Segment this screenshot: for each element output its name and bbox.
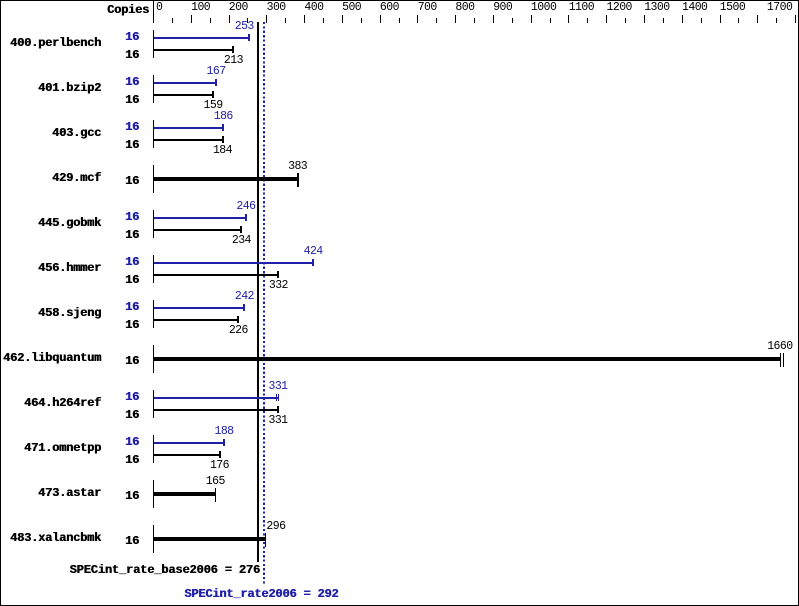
copies label 16 (peak) 403.gcc xyxy=(104,121,139,133)
x-axis minor tick 550 xyxy=(361,18,362,23)
copies label 16 (base) 458.sjeng xyxy=(104,319,139,331)
label 464.h264ref xyxy=(0,397,101,409)
x-axis minor tick 650 xyxy=(399,18,400,23)
x-axis major tick 200 xyxy=(229,15,230,23)
x-axis major tick 500 xyxy=(342,15,343,23)
bar 401.bzip2 base (159) xyxy=(154,94,214,96)
label 429.mcf xyxy=(0,172,101,184)
bar 483.xalancbmk (296) xyxy=(154,537,265,541)
x-axis minor tick 50 xyxy=(172,18,173,23)
value label 331 (peak) 464.h264ref xyxy=(268,381,287,393)
label 462.libquantum xyxy=(0,352,101,364)
x-axis label 1200 xyxy=(607,2,632,14)
x-axis minor tick 350 xyxy=(285,18,286,23)
label 471.omnetpp xyxy=(0,442,101,454)
x-axis label 400 xyxy=(304,2,323,14)
copies label 16 (base) 403.gcc xyxy=(104,139,139,151)
bar end cap 445.gobmk base xyxy=(240,226,242,233)
bar end cap 400.perlbench base xyxy=(232,46,234,53)
label 400.perlbench xyxy=(0,37,101,49)
x-axis minor tick 950 xyxy=(512,18,513,23)
bar end cap 471.omnetpp base xyxy=(219,451,221,458)
label 456.hmmer xyxy=(0,262,101,274)
x-axis label 1400 xyxy=(682,2,707,14)
bar 403.gcc peak (186) xyxy=(154,127,224,129)
x-axis major tick 1600 xyxy=(757,15,758,23)
value label 165 473.astar xyxy=(206,476,225,488)
bar 464.h264ref base (331) xyxy=(154,409,279,411)
x-axis label 100 xyxy=(191,2,210,14)
bar 445.gobmk base (234) xyxy=(154,229,242,231)
value label 234 (base) 445.gobmk xyxy=(232,235,251,247)
bar 471.omnetpp peak (188) xyxy=(154,442,225,444)
x-axis minor tick 150 xyxy=(210,18,211,23)
x-axis label 200 xyxy=(229,2,248,14)
bar end cap 403.gcc base xyxy=(222,136,224,143)
x-axis label 300 xyxy=(267,2,286,14)
copies label 16 (peak) 471.omnetpp xyxy=(104,436,139,448)
bar end cap 458.sjeng peak xyxy=(243,304,245,311)
label 473.astar xyxy=(0,487,101,499)
copies label 16 (peak) 401.bzip2 xyxy=(104,76,139,88)
x-axis label 1500 xyxy=(720,2,745,14)
copies label 16 (peak) 464.h264ref xyxy=(104,391,139,403)
x-axis major tick 300 xyxy=(266,15,267,23)
row axis segment 458.sjeng xyxy=(153,300,154,329)
x-axis minor tick 1350 xyxy=(663,18,664,23)
x-axis label 900 xyxy=(493,2,512,14)
copies label 16 (peak) 445.gobmk xyxy=(104,211,139,223)
x-axis minor tick 1650 xyxy=(776,18,777,23)
bar end cap 458.sjeng base xyxy=(237,316,239,323)
x-axis major tick 1300 xyxy=(644,15,645,23)
y-axis line (value 0) xyxy=(153,1,154,23)
bar end cap 471.omnetpp peak xyxy=(223,439,225,446)
bar 429.mcf (383) xyxy=(154,177,298,181)
x-axis major tick 400 xyxy=(304,15,305,23)
bar end cap 445.gobmk peak xyxy=(245,214,247,221)
bar 400.perlbench peak (253) xyxy=(154,37,250,39)
bar end cap 456.hmmer peak xyxy=(312,259,314,266)
value label 184 (base) 403.gcc xyxy=(213,145,232,157)
bar end cap 464.h264ref peak (double) xyxy=(276,394,277,401)
x-axis label 1000 xyxy=(531,2,556,14)
x-axis major tick 1200 xyxy=(606,15,607,23)
copies label 16 (peak) 456.hmmer xyxy=(104,256,139,268)
x-axis minor tick 1250 xyxy=(625,18,626,23)
row axis segment 456.hmmer xyxy=(153,255,154,284)
x-axis major tick 1400 xyxy=(682,15,683,23)
x-axis major tick 1500 xyxy=(720,15,721,23)
bar end cap 456.hmmer base xyxy=(277,271,279,278)
x-axis label 1700 xyxy=(767,2,792,14)
copies label 16 (peak) 400.perlbench xyxy=(104,31,139,43)
x-axis minor tick 1150 xyxy=(587,18,588,23)
value label 253 (peak) 400.perlbench xyxy=(235,21,254,33)
copies label 16 (base) 445.gobmk xyxy=(104,229,139,241)
x-axis major tick 1000 xyxy=(531,15,532,23)
row axis segment 403.gcc xyxy=(153,120,154,149)
row axis segment 473.astar xyxy=(153,480,154,509)
value label 188 (peak) 471.omnetpp xyxy=(214,426,233,438)
summary text SPECint_rate_base2006 = 276 xyxy=(70,564,260,576)
bar 471.omnetpp base (176) xyxy=(154,454,221,456)
x-axis label 500 xyxy=(342,2,361,14)
x-axis label 1300 xyxy=(644,2,669,14)
x-axis major tick 800 xyxy=(455,15,456,23)
copies label 16 473.astar xyxy=(104,490,139,502)
value label 226 (base) 458.sjeng xyxy=(229,325,248,337)
label 458.sjeng xyxy=(0,307,101,319)
x-axis label 600 xyxy=(380,2,399,14)
x-axis label 1100 xyxy=(569,2,594,14)
x-axis minor tick 750 xyxy=(436,18,437,23)
row axis segment 429.mcf xyxy=(153,165,154,194)
value label 296 483.xalancbmk xyxy=(266,521,285,533)
x-axis major tick 900 xyxy=(493,15,494,23)
bar 462.libquantum (1660) xyxy=(154,357,780,361)
x-axis minor tick 850 xyxy=(474,18,475,23)
copies label 16 (base) 464.h264ref xyxy=(104,409,139,421)
bar 464.h264ref peak (331) xyxy=(154,397,279,399)
x-axis minor tick 1550 xyxy=(738,18,739,23)
row axis segment 401.bzip2 xyxy=(153,75,154,104)
bar 458.sjeng peak (242) xyxy=(154,307,245,309)
copies label 16 483.xalancbmk xyxy=(104,535,139,547)
value label 1660 462.libquantum xyxy=(767,341,792,353)
value label 186 (peak) 403.gcc xyxy=(214,111,233,123)
value label 167 (peak) 401.bzip2 xyxy=(207,66,226,78)
x-axis major tick 100 xyxy=(191,15,192,23)
x-axis label 800 xyxy=(455,2,474,14)
copies label 16 (peak) 458.sjeng xyxy=(104,301,139,313)
label 483.xalancbmk xyxy=(0,532,101,544)
value label 246 (peak) 445.gobmk xyxy=(236,201,255,213)
row axis segment 483.xalancbmk xyxy=(153,525,154,554)
x-axis major tick 700 xyxy=(417,15,418,23)
x-axis major tick 1700 xyxy=(795,15,796,23)
row axis segment 464.h264ref xyxy=(153,390,154,419)
label 403.gcc xyxy=(0,127,101,139)
bar 473.astar (165) xyxy=(154,492,215,496)
bar end cap 464.h264ref base xyxy=(277,406,279,413)
bar 401.bzip2 peak (167) xyxy=(154,82,217,84)
bar 403.gcc base (184) xyxy=(154,139,224,141)
value label 332 (base) 456.hmmer xyxy=(269,280,288,292)
copies label 16 (base) 400.perlbench xyxy=(104,49,139,61)
bar 400.perlbench base (213) xyxy=(154,49,234,51)
reference line SPECint_rate_base2006 = 276 (solid) xyxy=(257,22,259,562)
copies label 16 462.libquantum xyxy=(104,355,139,367)
value label 242 (peak) 458.sjeng xyxy=(235,291,254,303)
copies label 16 (base) 471.omnetpp xyxy=(104,454,139,466)
value label 159 (base) 401.bzip2 xyxy=(204,100,223,112)
bar 445.gobmk peak (246) xyxy=(154,217,247,219)
bar end cap 400.perlbench peak xyxy=(248,34,250,41)
header label Copies xyxy=(107,4,149,16)
value label 213 (base) 400.perlbench xyxy=(224,55,243,67)
value label 383 429.mcf xyxy=(288,161,307,173)
bar end cap 401.bzip2 peak xyxy=(215,79,217,86)
bar end cap 473.astar xyxy=(215,488,216,502)
bar 458.sjeng base (226) xyxy=(154,319,239,321)
x-axis minor tick 250 xyxy=(247,18,248,23)
value label 176 (base) 471.omnetpp xyxy=(210,460,229,472)
bar 456.hmmer peak (424) xyxy=(154,262,314,264)
copies label 16 429.mcf xyxy=(104,175,139,187)
bar end cap 483.xalancbmk xyxy=(265,533,266,547)
x-axis minor tick 1050 xyxy=(550,18,551,23)
x-axis label 0 xyxy=(156,2,162,14)
label 445.gobmk xyxy=(0,217,101,229)
label 401.bzip2 xyxy=(0,82,101,94)
summary text SPECint_rate2006 = 292 xyxy=(184,588,338,600)
bar end cap 462.libquantum (double) xyxy=(780,353,781,367)
copies label 16 (base) 401.bzip2 xyxy=(104,94,139,106)
x-axis major tick 600 xyxy=(380,15,381,23)
reference line SPECint_rate2006 = 292 (dotted) xyxy=(263,22,265,584)
bar end cap 403.gcc peak xyxy=(222,124,224,131)
bar end cap 429.mcf xyxy=(297,173,298,187)
x-axis major tick 1100 xyxy=(568,15,569,23)
row axis segment 462.libquantum xyxy=(153,345,154,374)
value label 331 (base) 464.h264ref xyxy=(268,415,287,427)
x-axis label 700 xyxy=(418,2,437,14)
x-axis minor tick 450 xyxy=(323,18,324,23)
row axis segment 445.gobmk xyxy=(153,210,154,239)
row axis segment 400.perlbench xyxy=(153,30,154,59)
bar 456.hmmer base (332) xyxy=(154,274,279,276)
copies label 16 (base) 456.hmmer xyxy=(104,274,139,286)
x-axis minor tick 1450 xyxy=(701,18,702,23)
row axis segment 471.omnetpp xyxy=(153,435,154,464)
value label 424 (peak) 456.hmmer xyxy=(304,246,323,258)
bar end cap 401.bzip2 base xyxy=(212,91,214,98)
